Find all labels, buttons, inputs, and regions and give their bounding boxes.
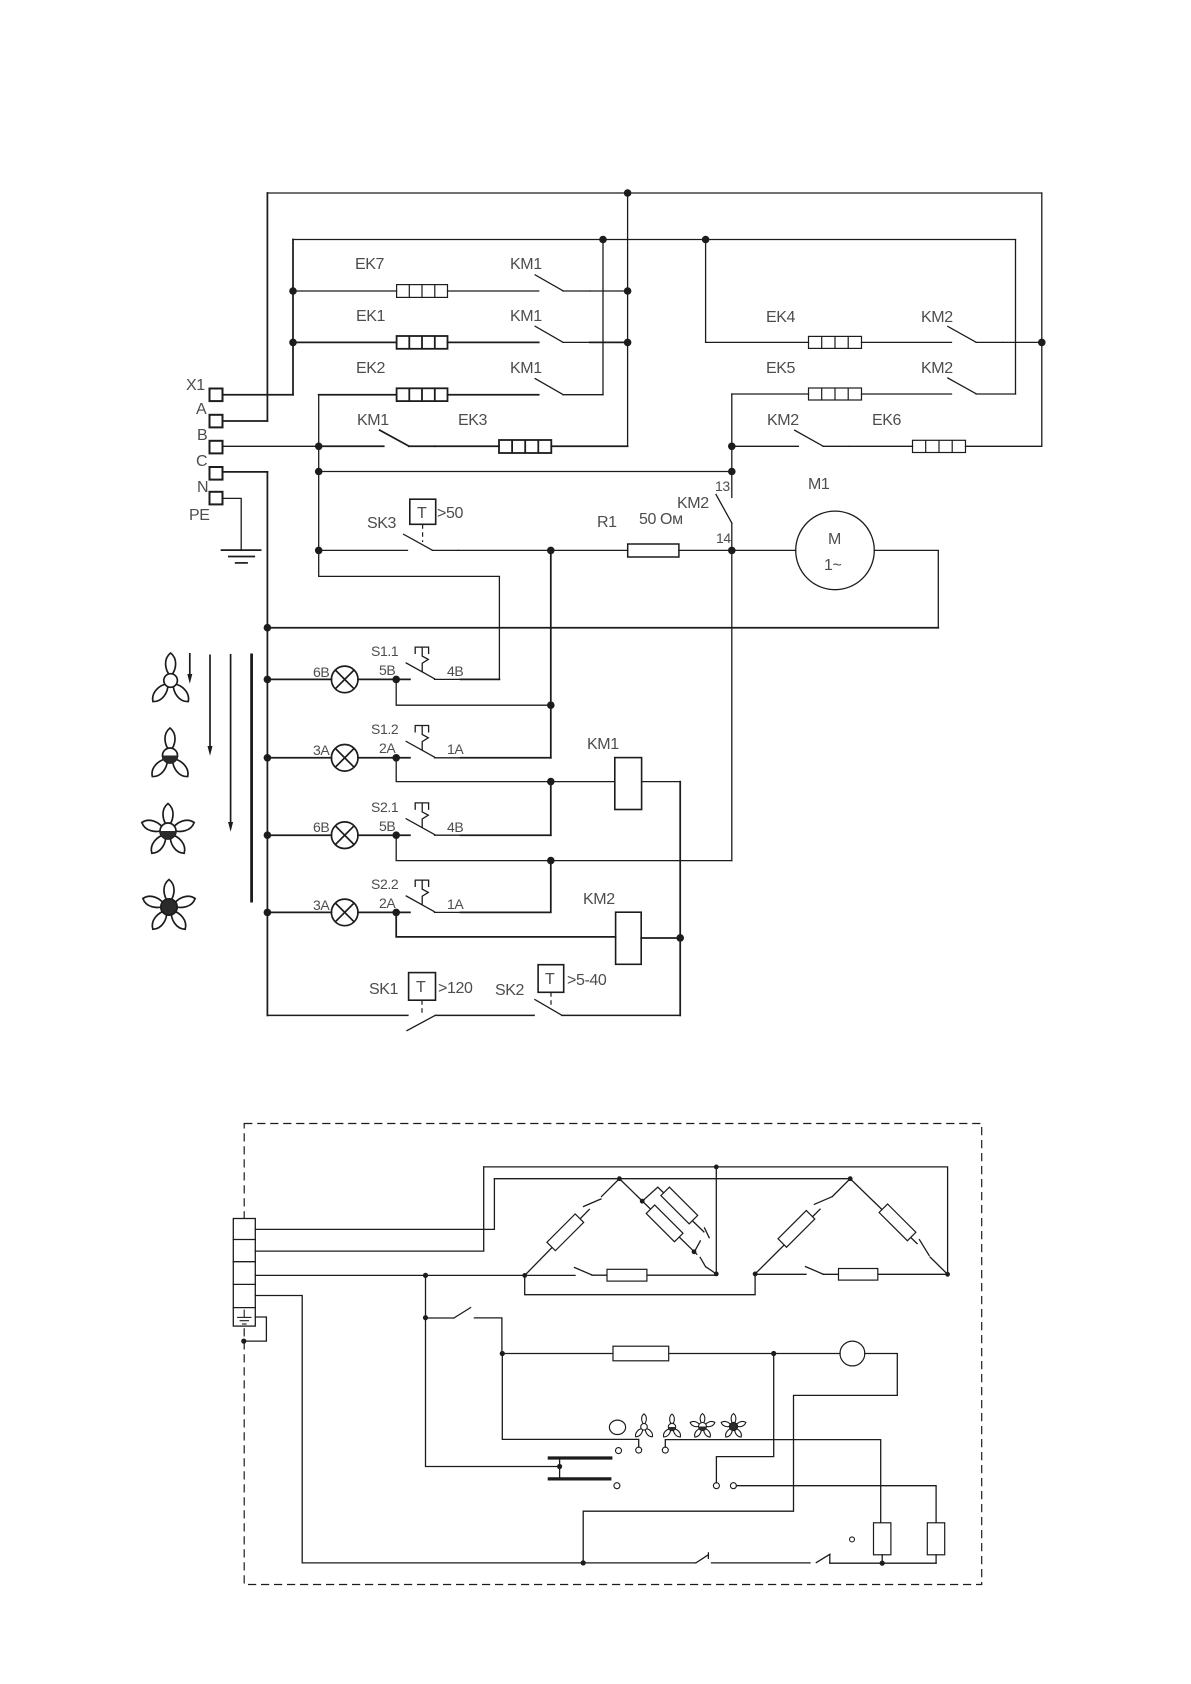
node delta1 branch top (640, 1199, 645, 1204)
wire S1.1 lamp to button (358, 678, 410, 680)
wire second supply bus (293, 239, 1016, 241)
bottom switch A (696, 1553, 709, 1563)
delta1 parallel branch (642, 1187, 709, 1251)
wire terminal B lead (223, 420, 268, 422)
svg-text:EK1: EK1 (356, 308, 386, 325)
wire interlock link B (550, 782, 552, 836)
lamp HL3 (331, 822, 358, 849)
node C row junction (315, 443, 323, 451)
wire terminal c6 to resistor B (736, 1486, 936, 1523)
bottom switch B (816, 1554, 830, 1563)
svg-text:3А: 3А (313, 897, 330, 913)
svg-text:>120: >120 (438, 980, 473, 997)
svg-text:EK3: EK3 (458, 412, 488, 429)
delta2 right side (850, 1179, 947, 1275)
heater EK6 (913, 440, 966, 452)
mini fan 4 (720, 1414, 746, 1439)
node S1.2 junction (392, 754, 400, 762)
wire phase A vertical (292, 240, 294, 395)
wire bottom return line (302, 1562, 696, 1564)
heater EK1 (397, 336, 448, 349)
svg-text:EK6: EK6 (872, 412, 902, 429)
wire motor return bus (267, 627, 938, 629)
contact KM1 row EK2 (535, 379, 603, 395)
delta2 left side (755, 1179, 850, 1274)
svg-text:2А: 2А (379, 895, 396, 911)
svg-text:KM2: KM2 (677, 495, 709, 512)
svg-text:50 Ом: 50 Ом (639, 511, 683, 528)
wire SK3 to R1 (458, 549, 627, 551)
heater EK5 (809, 388, 862, 400)
contactor coil KM1 (615, 758, 642, 810)
contact SK2 (535, 1000, 562, 1016)
svg-text:KM2: KM2 (921, 309, 953, 326)
wire resistor A bottom (881, 1555, 883, 1563)
switch fixed side (474, 1318, 502, 1354)
fan speed-3 icon (140, 804, 195, 857)
wire block row3 feed (255, 1274, 524, 1276)
terminal X1:C (210, 441, 223, 454)
wire SK3 row left (319, 549, 408, 551)
contactor coil KM2 (616, 912, 642, 964)
wire delta link (525, 1274, 755, 1295)
wire SK1 row (267, 1014, 408, 1016)
svg-text:6В: 6В (313, 664, 329, 680)
node motor return junction (264, 624, 272, 632)
dashed link SK3 (422, 524, 424, 542)
terminal c2 (636, 1447, 642, 1453)
svg-text:>5-40: >5-40 (567, 972, 607, 989)
heater EK3 (499, 440, 551, 453)
wire EK5/EK6 column vertical (731, 394, 733, 472)
wire EK5 row (732, 393, 952, 395)
terminal X1:N (210, 467, 223, 480)
delta2 right switch (919, 1240, 929, 1256)
arrow speed-2 (208, 655, 213, 756)
terminal c5 (713, 1483, 719, 1489)
terminal c4 (614, 1483, 620, 1489)
mini fan 1 (634, 1414, 654, 1438)
wire bars feed (426, 1318, 560, 1467)
lamp HL1 (331, 666, 358, 693)
svg-text:KM1: KM1 (587, 736, 619, 753)
svg-text:EK2: EK2 (356, 360, 386, 377)
svg-text:KM2: KM2 (921, 360, 953, 377)
delta2 bottom wire (755, 1273, 948, 1275)
node S1.1 junction (392, 676, 400, 684)
terminal block X (233, 1219, 255, 1327)
node resistor row left (500, 1351, 505, 1356)
svg-text:SK2: SK2 (495, 982, 525, 999)
arrow speed-1 (187, 653, 192, 684)
svg-text:SK3: SK3 (367, 515, 397, 532)
node lamp feed (771, 1351, 776, 1356)
node EK7 left junction (289, 287, 297, 295)
delta2 left heater (778, 1211, 815, 1248)
delta2 right heater (879, 1204, 916, 1241)
wire SK2 right (562, 1014, 680, 1016)
node 13-branch junction (315, 468, 323, 476)
wire EK5 right vertical (1015, 240, 1017, 395)
node S2.2 junction (392, 909, 400, 917)
node S2.2 row left (264, 909, 272, 917)
thermal sensor box SK2 (538, 965, 564, 993)
svg-text:R1: R1 (597, 514, 617, 531)
wire S2.2 right (461, 861, 551, 913)
wire KM2 coil right (641, 937, 680, 939)
wire KM1 coil column vertical (679, 782, 681, 1016)
node top bus / EK7-EK1 column junction (624, 189, 632, 197)
node outer bus junction (714, 1165, 719, 1170)
svg-text:X1: X1 (186, 377, 205, 394)
wire 13 branch horizontal (319, 471, 732, 473)
wire SK3 bypass elbow to S1.1 (319, 550, 500, 679)
pushbutton S1.1 (406, 647, 460, 679)
svg-text:T: T (545, 971, 555, 988)
wire R1 to motor (679, 549, 796, 551)
wire S1.2 lamp lead (267, 757, 331, 759)
wire 14 feed vertical (731, 550, 733, 860)
pushbutton S1.2 (406, 726, 460, 758)
node S2.1 under junction (547, 857, 555, 865)
wire EK7 row (293, 290, 539, 292)
node delta2 apex (848, 1176, 853, 1181)
enclosure dashed border (244, 1124, 982, 1585)
node second bus junction to EK4 column (702, 236, 710, 244)
wire EK3 row (435, 445, 628, 447)
svg-text:M1: M1 (808, 476, 830, 493)
indicator circle (840, 1341, 865, 1366)
terminal X1:B (210, 415, 223, 428)
node EK6 left junction (728, 443, 736, 451)
resistor A vertical (874, 1523, 891, 1555)
svg-text:13: 13 (715, 478, 730, 494)
contact bar upper (548, 1456, 613, 1459)
dashed link SK1 (421, 1000, 423, 1016)
wire block row2 feed (255, 1167, 483, 1251)
arrow speed-3 (228, 654, 233, 832)
svg-text:EK5: EK5 (766, 360, 796, 377)
wire bar connector (559, 1458, 561, 1479)
wire S1.2 lamp to button (358, 757, 410, 759)
node delta1 left vertex (522, 1273, 527, 1278)
pushbutton S2.1 (406, 803, 460, 835)
svg-text:М: М (828, 531, 841, 548)
svg-text:1А: 1А (447, 741, 464, 757)
switch main (426, 1308, 471, 1318)
delta1 bottom wire (525, 1274, 717, 1276)
node switch pivot (423, 1315, 428, 1320)
node S1.2 row left (264, 754, 272, 762)
delta1 right switch (700, 1257, 705, 1266)
svg-text:C: C (196, 453, 207, 470)
svg-text:T: T (416, 979, 426, 996)
thermal sensor box SK3 (410, 499, 436, 524)
wire EK4 left vertical (705, 240, 707, 343)
wire S2.1 lamp lead (267, 834, 331, 836)
svg-text:KM1: KM1 (510, 256, 542, 273)
wire S1.2 under branch (396, 758, 615, 782)
node resistor A bottom (880, 1561, 885, 1566)
wire indicator loop (583, 1354, 897, 1563)
contact KM1 row EK3 (380, 430, 435, 446)
node PE bond on enclosure (241, 1339, 246, 1344)
wire terminal PE lead (223, 498, 242, 549)
contact SK1 (407, 1016, 435, 1031)
wire S2.2 lamp to button (358, 911, 410, 913)
lamp HL2 (331, 745, 358, 772)
node delta2 left vertex (753, 1272, 758, 1277)
wire terminal C lead (223, 445, 319, 447)
delta1 left switch (584, 1199, 601, 1207)
wire terminal c3 to resistor A (665, 1440, 880, 1523)
wire inner bus to delta apexes (494, 1178, 850, 1180)
node SK3 row left junction (315, 547, 323, 555)
node 13 junction (728, 468, 736, 476)
heater EK2 (397, 388, 448, 401)
wire phase B vertical (266, 193, 268, 421)
wire terminal A lead (223, 394, 294, 396)
terminal small o (850, 1537, 855, 1542)
wire EK1 row (293, 341, 539, 343)
terminal c6 (730, 1483, 736, 1489)
node bar connector (557, 1464, 562, 1469)
wire tap vertical to switch (425, 1275, 427, 1317)
wire S1.1 right (461, 678, 500, 680)
wire outer top bus (484, 1167, 948, 1274)
pushbutton S2.2 (406, 880, 460, 912)
contact bar lower (548, 1477, 612, 1480)
delta1 left side (525, 1179, 620, 1276)
svg-text:EK7: EK7 (355, 256, 385, 273)
mini fan 2 (662, 1414, 682, 1438)
wire lamp feed drop (716, 1354, 773, 1483)
delta1 left heater (547, 1214, 584, 1251)
svg-text:6В: 6В (313, 819, 329, 835)
wire block row1 feed (255, 1179, 494, 1230)
svg-text:S1.1: S1.1 (371, 643, 399, 659)
delta1 right side (619, 1179, 716, 1274)
contact KM1 row EK1 (535, 326, 590, 342)
fan speed-1 icon (149, 653, 192, 705)
node S1.1 under junction (547, 701, 555, 709)
wire block row4 feed (255, 1296, 302, 1563)
svg-text:B: B (197, 427, 207, 444)
svg-text:5В: 5В (379, 662, 395, 678)
thermal sensor box SK1 (409, 973, 436, 1001)
svg-text:1~: 1~ (824, 557, 841, 574)
node 14 junction (728, 547, 736, 555)
wire S1.2 right (461, 757, 551, 759)
node EK7 right junction (624, 287, 632, 295)
wire PE bond loop (243, 1317, 266, 1341)
heater EK4 (809, 336, 862, 348)
node second bus junction to KM1 contact column (599, 236, 607, 244)
wire top supply bus (267, 192, 1041, 194)
terminal c3 (662, 1447, 668, 1453)
delta1 right heater (646, 1205, 683, 1242)
svg-text:EK4: EK4 (766, 309, 796, 326)
resistor row box (613, 1346, 669, 1361)
svg-text:T: T (417, 505, 427, 522)
wire EK4 row (706, 341, 952, 343)
motor M1 (796, 511, 875, 590)
wire S2.2 lamp lead (267, 911, 331, 913)
terminal X1:PE (210, 492, 223, 505)
svg-text:1А: 1А (447, 896, 464, 912)
node KM2 coil junction (676, 934, 684, 942)
heater EK7 (397, 285, 448, 298)
svg-text:KM1: KM1 (357, 412, 389, 429)
wire EK1 right (590, 341, 628, 343)
resistor B vertical (927, 1523, 944, 1555)
svg-text:SK1: SK1 (369, 981, 399, 998)
mini fan 3 (689, 1414, 715, 1439)
wire bottom right (830, 1562, 936, 1564)
wire S2.2 under branch (396, 912, 615, 937)
svg-text:4В: 4В (447, 663, 463, 679)
contact KM2 row EK5 (948, 378, 1016, 394)
bar speed-4 (250, 654, 253, 903)
node S1.2 under junction (547, 778, 555, 786)
wire KM1 EK2-contact vertical (602, 240, 604, 395)
delta1 bottom heater (607, 1269, 647, 1281)
wire S2.1 lamp to button (358, 834, 410, 836)
node R1 feed junction (547, 547, 555, 555)
mini indicator circle (609, 1420, 625, 1434)
wire terminal N lead (223, 471, 268, 473)
wire S2.1 right (461, 834, 551, 836)
delta2 bottom switch (806, 1267, 824, 1275)
svg-text:S1.2: S1.2 (371, 721, 399, 737)
wire phase C vertical (318, 395, 320, 551)
wire EK2 row (319, 394, 539, 396)
wire to terminal c2 (502, 1354, 638, 1448)
wire R1-left feed vertical (550, 550, 552, 757)
wire EK6 row (849, 445, 1042, 447)
svg-text:A: A (196, 401, 207, 418)
svg-text:KM2: KM2 (583, 891, 615, 908)
terminal c1 (616, 1448, 622, 1454)
ground symbol in block (237, 1310, 251, 1324)
svg-text:14: 14 (716, 530, 731, 546)
wire EK7 right (590, 290, 628, 292)
contact KM1 row EK7 (535, 275, 590, 291)
node EK1 left junction (289, 339, 297, 347)
wire EK3 row left (319, 445, 384, 447)
wire neutral vertical (266, 472, 268, 1016)
svg-text:5В: 5В (379, 818, 395, 834)
contact KM2 13-14 (716, 472, 732, 551)
svg-text:N: N (197, 479, 208, 496)
wire S1.1 lamp lead (267, 678, 331, 680)
node delta1 apex (617, 1176, 622, 1181)
svg-text:4В: 4В (447, 819, 463, 835)
wire resistor B bottom (935, 1555, 937, 1563)
wire junction drop to delta1 (715, 1167, 717, 1274)
svg-text:KM1: KM1 (510, 308, 542, 325)
delta1 bottom switch (575, 1268, 593, 1276)
delta2 bottom heater (839, 1269, 878, 1281)
wire SK1 to SK2 (436, 1014, 535, 1016)
fan speed-4 icon (141, 880, 196, 933)
node EK4 right junction (1038, 339, 1046, 347)
wire S2.1 under branch (396, 835, 732, 860)
lamp HL4 (331, 899, 358, 926)
node delta2 right vertex (945, 1272, 950, 1277)
svg-text:S2.2: S2.2 (371, 876, 399, 892)
svg-text:S2.1: S2.1 (371, 799, 399, 815)
node delta1 right vertex (714, 1272, 719, 1277)
wire KM1 coil right (642, 781, 681, 783)
dashed link SK2 (550, 992, 552, 1006)
fan speed-2 icon (148, 728, 191, 780)
wire right vertical bus to EK6 (1041, 193, 1043, 446)
svg-text:KM1: KM1 (510, 360, 542, 377)
node delta1 branch bottom (692, 1249, 697, 1254)
delta2 left switch (814, 1197, 831, 1205)
svg-text:PE: PE (189, 507, 210, 524)
wire S1.1 under branch (396, 679, 551, 705)
contact SK3 (404, 534, 459, 550)
node S2.1 junction (392, 831, 400, 839)
node EK1 right junction (624, 339, 632, 347)
svg-text:>50: >50 (437, 505, 463, 522)
wire motor right loop (874, 550, 938, 627)
svg-text:2А: 2А (379, 740, 396, 756)
resistor R1 (628, 544, 679, 557)
wire between bottom switches (712, 1562, 811, 1564)
wire resistor row (502, 1353, 840, 1355)
ground PE (221, 550, 262, 563)
node row3 tap (423, 1273, 428, 1278)
svg-text:KM2: KM2 (767, 412, 799, 429)
wire EK7/EK1 right column vertical (627, 193, 629, 446)
node bottom return tap (581, 1560, 586, 1565)
delta1 parallel heater (661, 1187, 698, 1224)
terminal X1:A (210, 389, 223, 402)
svg-text:3А: 3А (313, 742, 330, 758)
node S1.1 row left (264, 676, 272, 684)
contact KM2 row EK4 (948, 326, 1003, 342)
contact KM2 row EK6 (732, 430, 849, 446)
wire EK4 right (1003, 341, 1042, 343)
node S2.1 row left (264, 831, 272, 839)
